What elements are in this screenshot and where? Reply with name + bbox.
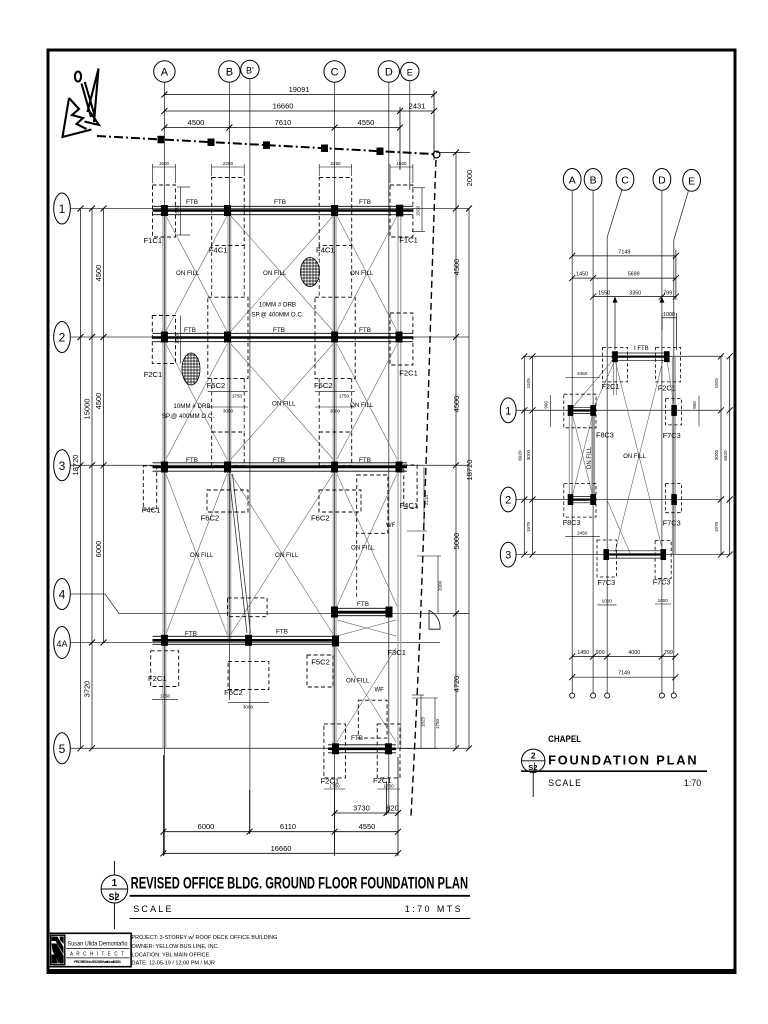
svg-text:1750: 1750 xyxy=(383,784,394,789)
svg-text:3720: 3720 xyxy=(83,681,92,698)
svg-text:WF: WF xyxy=(386,523,396,529)
svg-text:ON FILL: ON FILL xyxy=(350,402,374,409)
svg-text:3: 3 xyxy=(505,550,511,562)
svg-text:900: 900 xyxy=(596,650,605,656)
svg-text:2: 2 xyxy=(59,331,66,345)
svg-text:F2C1: F2C1 xyxy=(148,674,167,683)
svg-text:2: 2 xyxy=(505,495,511,507)
svg-text:1: 1 xyxy=(59,202,66,216)
svg-text:1: 1 xyxy=(505,405,511,417)
svg-text:7149: 7149 xyxy=(618,250,630,256)
svg-text:FTB: FTB xyxy=(359,327,371,334)
svg-text:F7C3: F7C3 xyxy=(653,577,671,586)
svg-text:DATE: 12-05-19 / 12:00 PM / MJ: DATE: 12-05-19 / 12:00 PM / MJR xyxy=(132,961,215,967)
svg-text:I FTB: I FTB xyxy=(634,346,649,352)
svg-text:4500: 4500 xyxy=(94,393,103,410)
svg-text:1000: 1000 xyxy=(663,312,675,318)
svg-text:ON FILL: ON FILL xyxy=(346,678,370,685)
svg-text:900: 900 xyxy=(544,401,549,409)
svg-text:3: 3 xyxy=(59,459,66,473)
svg-text:4500: 4500 xyxy=(452,396,461,413)
svg-text:ON FILL: ON FILL xyxy=(275,552,299,559)
svg-text:18720: 18720 xyxy=(465,460,474,481)
svg-text:1: 1 xyxy=(112,878,118,889)
svg-text:F7C3: F7C3 xyxy=(597,578,615,587)
svg-text:S2: S2 xyxy=(528,763,537,772)
svg-text:PROJECT: 3-STOREY w/ ROOF DECK: PROJECT: 3-STOREY w/ ROOF DECK OFFICE BU… xyxy=(132,935,278,941)
svg-text:3000: 3000 xyxy=(243,704,254,709)
svg-text:6920: 6920 xyxy=(518,450,523,461)
svg-text:F5C2: F5C2 xyxy=(311,658,330,667)
svg-text:4A: 4A xyxy=(56,639,67,649)
svg-text:10MM # DRB: 10MM # DRB xyxy=(173,403,210,410)
svg-text:1:70: 1:70 xyxy=(684,778,701,788)
svg-text:REVISED OFFICE BLDG. GROUND FL: REVISED OFFICE BLDG. GROUND FLOOR FOUNDA… xyxy=(131,875,469,893)
svg-text:LOCATION: YBL MAIN OFFICE: LOCATION: YBL MAIN OFFICE xyxy=(132,952,210,958)
svg-text:1975: 1975 xyxy=(526,521,531,532)
svg-text:4000: 4000 xyxy=(628,650,640,656)
svg-text:F4C1: F4C1 xyxy=(209,245,228,254)
svg-text:5: 5 xyxy=(59,742,66,756)
svg-text:1825: 1825 xyxy=(421,716,426,727)
svg-text:F6C2: F6C2 xyxy=(201,514,220,523)
svg-text:F2C1: F2C1 xyxy=(399,369,418,378)
svg-text:F3C1: F3C1 xyxy=(387,648,406,657)
svg-text:SP.@ 400MM O.C.: SP.@ 400MM O.C. xyxy=(251,311,304,318)
svg-text:799: 799 xyxy=(663,290,672,296)
svg-text:1975: 1975 xyxy=(714,521,719,532)
svg-text:B: B xyxy=(590,174,597,186)
svg-text:FTB: FTB xyxy=(359,457,371,464)
svg-text:1925: 1925 xyxy=(714,378,719,389)
svg-text:1750: 1750 xyxy=(232,394,243,399)
svg-text:900: 900 xyxy=(692,401,697,409)
svg-text:B: B xyxy=(226,67,233,79)
svg-text:1000: 1000 xyxy=(658,598,669,603)
svg-text:FTB: FTB xyxy=(351,735,363,742)
svg-text:19091: 19091 xyxy=(289,85,310,94)
svg-text:F5C2: F5C2 xyxy=(314,381,333,390)
svg-text:2: 2 xyxy=(531,751,536,761)
svg-text:6920: 6920 xyxy=(723,450,728,461)
svg-text:WF: WF xyxy=(375,687,385,693)
svg-text:2000: 2000 xyxy=(465,170,474,187)
svg-text:2450: 2450 xyxy=(577,371,588,376)
svg-text:ON FILL: ON FILL xyxy=(190,552,214,559)
svg-text:1925: 1925 xyxy=(526,378,531,389)
svg-text:1450: 1450 xyxy=(577,650,589,656)
svg-text:3000: 3000 xyxy=(330,409,341,414)
svg-text:1500: 1500 xyxy=(396,161,407,166)
svg-text:4500: 4500 xyxy=(452,259,461,276)
svg-text:6110: 6110 xyxy=(280,822,296,831)
svg-text:2250: 2250 xyxy=(223,161,234,166)
svg-text:ON FILL: ON FILL xyxy=(263,270,287,277)
svg-text:FTB: FTB xyxy=(357,601,369,608)
svg-text:F1C1: F1C1 xyxy=(399,235,418,244)
svg-text:3000: 3000 xyxy=(223,409,234,414)
svg-text:ON FILL: ON FILL xyxy=(351,545,375,552)
svg-text:1500: 1500 xyxy=(175,205,180,216)
svg-text:FOUNDATION PLAN: FOUNDATION PLAN xyxy=(548,753,697,768)
svg-text:Susan Ulida Demontaño: Susan Ulida Demontaño xyxy=(68,941,128,948)
svg-text:3730: 3730 xyxy=(353,804,370,813)
svg-text:B': B' xyxy=(246,66,254,76)
svg-text:FTB: FTB xyxy=(274,199,286,206)
svg-text:ON FILL: ON FILL xyxy=(272,401,296,408)
svg-text:F7C3: F7C3 xyxy=(663,519,681,528)
svg-text:799: 799 xyxy=(664,650,673,656)
svg-text:A R C H I T E C T: A R C H I T E C T xyxy=(70,952,125,958)
svg-text:3000: 3000 xyxy=(714,449,719,460)
svg-text:2210: 2210 xyxy=(424,494,429,505)
svg-text:C: C xyxy=(331,67,339,79)
svg-text:FTB: FTB xyxy=(186,457,198,464)
svg-text:E: E xyxy=(688,175,695,187)
svg-text:1750: 1750 xyxy=(435,718,440,729)
svg-text:SCALE: SCALE xyxy=(548,778,582,788)
svg-text:A: A xyxy=(569,174,576,186)
svg-text:OWNER: YELLOW BUS LINE, INC.: OWNER: YELLOW BUS LINE, INC. xyxy=(132,944,220,950)
svg-text:SCALE: SCALE xyxy=(133,904,174,914)
svg-text:E: E xyxy=(407,68,413,78)
svg-text:2250: 2250 xyxy=(330,161,341,166)
svg-text:F4C1: F4C1 xyxy=(142,505,161,514)
svg-text:1750: 1750 xyxy=(339,394,350,399)
svg-text:6000: 6000 xyxy=(198,822,215,831)
svg-text:F2C1: F2C1 xyxy=(144,370,163,379)
svg-text:D: D xyxy=(658,174,666,186)
svg-text:5000: 5000 xyxy=(452,533,461,550)
svg-text:FTB: FTB xyxy=(186,199,198,206)
svg-text:F8C3: F8C3 xyxy=(596,430,614,439)
svg-text:820: 820 xyxy=(386,804,399,813)
svg-text:16660: 16660 xyxy=(273,102,294,111)
svg-text:F5C2: F5C2 xyxy=(207,381,226,390)
svg-text:PRC REG No. 0012345 / valid un: PRC REG No. 0012345 / valid until 2021 xyxy=(74,960,121,964)
svg-text:A: A xyxy=(161,67,169,79)
svg-text:1500: 1500 xyxy=(175,333,180,344)
svg-text:2000: 2000 xyxy=(438,580,443,591)
svg-text:1:70 MTS: 1:70 MTS xyxy=(405,904,463,914)
svg-text:ON FILL: ON FILL xyxy=(350,270,374,277)
svg-text:5699: 5699 xyxy=(628,271,640,277)
svg-text:FTB: FTB xyxy=(276,629,288,636)
svg-text:4550: 4550 xyxy=(359,822,376,831)
svg-text:CHAPEL: CHAPEL xyxy=(548,734,581,745)
svg-text:7610: 7610 xyxy=(275,118,292,127)
svg-text:F6C2: F6C2 xyxy=(224,688,243,697)
svg-text:6000: 6000 xyxy=(94,541,103,558)
svg-text:2431: 2431 xyxy=(409,102,426,111)
svg-text:1000: 1000 xyxy=(602,599,613,604)
svg-text:10MM # DRB: 10MM # DRB xyxy=(259,302,296,309)
svg-text:FTB: FTB xyxy=(184,327,196,334)
svg-text:3350: 3350 xyxy=(629,290,641,296)
svg-text:FTB: FTB xyxy=(359,199,371,206)
svg-text:F6C2: F6C2 xyxy=(311,514,330,523)
svg-text:1550: 1550 xyxy=(598,290,610,296)
svg-text:1450: 1450 xyxy=(576,271,588,277)
svg-text:4500: 4500 xyxy=(188,118,205,127)
svg-text:4550: 4550 xyxy=(358,118,375,127)
svg-text:ON FILL: ON FILL xyxy=(176,270,200,277)
svg-text:S2: S2 xyxy=(108,892,119,902)
svg-text:SP.@ 400MM O.C.: SP.@ 400MM O.C. xyxy=(162,413,215,420)
svg-text:15000: 15000 xyxy=(83,399,92,420)
svg-text:18720: 18720 xyxy=(71,455,80,476)
svg-text:7149: 7149 xyxy=(618,671,630,677)
svg-text:1500: 1500 xyxy=(416,205,421,216)
svg-text:1750: 1750 xyxy=(160,693,171,698)
svg-text:F1C1: F1C1 xyxy=(144,236,163,245)
svg-text:FTB: FTB xyxy=(273,327,285,334)
svg-text:C: C xyxy=(621,174,629,186)
svg-text:F2C1: F2C1 xyxy=(658,383,676,392)
svg-text:4500: 4500 xyxy=(94,265,103,282)
svg-text:FTB: FTB xyxy=(273,457,285,464)
svg-text:FTB: FTB xyxy=(185,631,197,638)
svg-text:2450: 2450 xyxy=(577,531,588,536)
svg-text:4720: 4720 xyxy=(452,676,461,693)
svg-text:F8C3: F8C3 xyxy=(563,518,581,527)
svg-text:F7C3: F7C3 xyxy=(663,431,681,440)
svg-text:4: 4 xyxy=(59,588,66,602)
svg-text:D: D xyxy=(385,67,393,79)
svg-text:ON FILL: ON FILL xyxy=(587,446,593,469)
svg-text:F4C1: F4C1 xyxy=(316,245,335,254)
svg-text:F2C1: F2C1 xyxy=(602,382,620,391)
svg-text:ON FILL: ON FILL xyxy=(623,454,646,460)
svg-text:1500: 1500 xyxy=(159,161,170,166)
svg-text:16660: 16660 xyxy=(271,844,292,853)
svg-text:F4C1: F4C1 xyxy=(400,501,419,510)
svg-text:3000: 3000 xyxy=(526,449,531,460)
